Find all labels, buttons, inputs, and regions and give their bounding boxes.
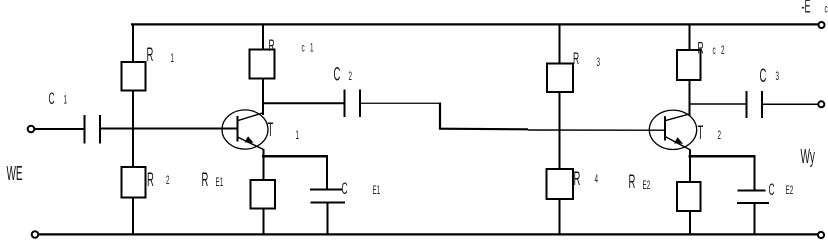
svg-text:R: R — [147, 45, 154, 67]
svg-text:R: R — [202, 170, 209, 192]
transistor T1 label — [268, 120, 300, 142]
svg-text:1: 1 — [64, 94, 68, 106]
transistor T2 — [649, 110, 696, 150]
wire step down — [439, 103, 441, 130]
svg-text:c: c — [713, 44, 716, 56]
resistor R1 — [122, 62, 146, 91]
wire input to C1 — [35, 128, 85, 130]
resistor RE2 — [677, 182, 701, 211]
wire T2 emitter lead — [689, 150, 691, 158]
wire C2 to step-down — [361, 102, 440, 104]
svg-text:1: 1 — [310, 42, 314, 54]
capacitor C1 — [85, 115, 101, 144]
capacitor CE2 — [737, 191, 769, 204]
wire Rc2 to T2 collector — [689, 80, 691, 116]
svg-text:T: T — [698, 123, 704, 145]
wire R3 to R4 (T2 base divider) — [559, 92, 561, 169]
svg-text:E2: E2 — [786, 184, 794, 196]
svg-text:E2: E2 — [643, 179, 651, 191]
capacitor C3 label — [760, 66, 780, 88]
capacitor C1 label — [49, 89, 68, 108]
svg-text:2: 2 — [721, 44, 725, 56]
resistor R1 label — [147, 45, 175, 67]
svg-text:C: C — [49, 89, 55, 108]
svg-text:C: C — [334, 64, 341, 86]
resistor RE1 — [251, 180, 276, 209]
svg-text:R: R — [574, 169, 581, 191]
wire bottom ground rail — [38, 233, 818, 235]
transistor T2 label — [698, 123, 722, 145]
resistor R3 — [547, 64, 573, 93]
wire RE2 to ground — [689, 211, 691, 234]
wire R1 to R2 (base divider) — [132, 91, 134, 168]
node -Ec terminal — [819, 22, 825, 28]
node -Ec label — [802, 0, 828, 18]
wire R4 to ground — [559, 199, 561, 234]
svg-text:1: 1 — [296, 129, 300, 141]
wire Rc1 to T1 collector — [262, 79, 264, 116]
node input terminal WE — [28, 126, 35, 133]
svg-text:C: C — [342, 179, 348, 198]
svg-text:R: R — [698, 38, 704, 57]
node input ground terminal — [32, 231, 39, 238]
node WE label — [7, 164, 23, 186]
transistor T1 — [222, 110, 268, 150]
svg-text:C: C — [769, 180, 775, 199]
svg-text:2: 2 — [718, 129, 722, 141]
svg-text:T: T — [268, 120, 274, 142]
svg-text:E1: E1 — [216, 176, 224, 188]
wire top rail to R1 — [132, 24, 134, 62]
wire emitter to RE2 — [689, 157, 691, 182]
wire R2 to ground rail — [132, 198, 134, 235]
svg-text:R: R — [629, 172, 636, 194]
resistor R3 label — [573, 49, 600, 69]
wire collector node to C3 — [690, 103, 747, 105]
capacitor CE1 label — [342, 179, 381, 198]
wire C1 to T1 base — [101, 128, 238, 130]
node output ground terminal — [818, 232, 824, 238]
wire emitter junction bar 1 — [262, 155, 328, 158]
resistor R2 label — [147, 170, 170, 192]
wire emitter bar to CE1 — [326, 156, 328, 189]
resistor RE2 label — [629, 172, 651, 194]
resistor R4 — [547, 169, 574, 199]
svg-text:E1: E1 — [373, 184, 381, 196]
svg-text:2: 2 — [349, 70, 353, 82]
svg-text:4: 4 — [595, 173, 599, 185]
svg-text:3: 3 — [776, 70, 780, 82]
wire T1 emitter lead — [263, 149, 265, 157]
svg-text:1: 1 — [171, 52, 175, 64]
resistor Rc1 label — [269, 36, 314, 55]
svg-text:Wy: Wy — [801, 147, 815, 169]
svg-text:2: 2 — [166, 174, 170, 186]
capacitor C2 — [345, 90, 361, 118]
node Wy label — [801, 147, 815, 169]
wire top rail to Rc1 — [262, 24, 264, 50]
resistor RE1 label — [202, 170, 224, 192]
wire CE2 to ground — [754, 203, 756, 234]
wire C3 to output terminal — [763, 103, 818, 105]
capacitor CE2 label — [769, 180, 794, 199]
svg-text:C: C — [760, 66, 767, 88]
svg-text:R: R — [147, 170, 154, 192]
wire collector node to C2 — [263, 102, 345, 104]
svg-text:WE: WE — [7, 164, 23, 186]
capacitor CE1 — [310, 190, 345, 203]
resistor Rc2 label — [698, 38, 725, 57]
resistor R4 label — [574, 169, 599, 191]
wire emitter bar to CE2 — [754, 156, 756, 190]
resistor R2 — [122, 167, 146, 198]
resistor Rc2 — [677, 50, 701, 80]
svg-text:c: c — [825, 3, 828, 15]
wire emitter to RE1 — [263, 157, 265, 180]
wire to T2 base (thin part) — [528, 129, 665, 131]
wire RE1 to ground — [263, 209, 265, 235]
resistor Rc1 — [250, 50, 275, 79]
wire CE1 to ground — [327, 203, 329, 235]
capacitor C3 — [747, 91, 763, 118]
svg-text:R: R — [573, 49, 579, 68]
wire to T2 base (thick part) — [439, 128, 528, 131]
wire emitter junction bar 2 — [689, 155, 756, 158]
svg-text:-E: -E — [802, 0, 811, 18]
wire top supply rail — [131, 23, 819, 25]
wire top rail to Rc2 — [689, 24, 691, 50]
node output terminal Wy — [818, 101, 824, 107]
svg-text:c: c — [302, 42, 305, 54]
wire top rail to R3 — [559, 24, 561, 64]
capacitor C2 label — [334, 64, 353, 86]
svg-text:R: R — [269, 36, 275, 55]
svg-text:3: 3 — [597, 56, 601, 68]
